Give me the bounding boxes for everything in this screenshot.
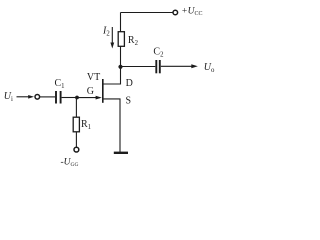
- svg-text:VT: VT: [87, 72, 100, 83]
- label -UGG: [61, 157, 79, 168]
- capacitor C2: [155, 60, 157, 73]
- label G: [87, 86, 94, 97]
- label C2: [153, 47, 164, 59]
- svg-text:S: S: [126, 96, 132, 107]
- label S: [126, 96, 132, 107]
- svg-text:C1: C1: [55, 78, 65, 90]
- wire input to C1: [40, 96, 55, 98]
- svg-text:-UGG: -UGG: [61, 157, 79, 168]
- wire node to C2: [121, 66, 156, 68]
- label +UCC: [181, 6, 202, 17]
- current arrow I2: [111, 27, 113, 44]
- label Ui: [4, 91, 13, 103]
- wire top supply: [121, 12, 173, 14]
- transistor VT drain lead: [103, 83, 121, 85]
- wire C2 to output: [161, 65, 192, 67]
- node G junction: [75, 96, 79, 100]
- terminal +UCC: [173, 10, 178, 15]
- label VT: [87, 72, 100, 83]
- svg-text:+UCC: +UCC: [181, 6, 202, 17]
- input arrow: [17, 96, 31, 98]
- label I2: [102, 26, 110, 38]
- svg-text:R1: R1: [81, 119, 91, 131]
- terminal -UGG: [74, 147, 79, 152]
- ground: [114, 152, 128, 154]
- resistor R1: [73, 117, 79, 132]
- wire R2 to node: [120, 46, 122, 84]
- label D: [126, 78, 133, 89]
- label R2: [128, 35, 139, 47]
- label R1: [81, 119, 91, 131]
- terminal input: [35, 95, 40, 100]
- label C1: [55, 78, 65, 90]
- svg-text:G: G: [87, 86, 94, 97]
- wire R1 to terminal: [75, 132, 77, 147]
- svg-text:R2: R2: [128, 35, 139, 47]
- capacitor C1: [55, 91, 57, 104]
- transistor VT source lead: [103, 99, 120, 152]
- svg-text:C2: C2: [153, 47, 164, 59]
- wire node to R1: [75, 98, 77, 118]
- resistor R2: [118, 32, 124, 47]
- svg-text:I2: I2: [102, 26, 110, 38]
- wire C1 to gate node: [62, 97, 77, 99]
- transistor VT channel: [102, 79, 104, 103]
- svg-text:D: D: [126, 78, 133, 89]
- transistor VT gate lead: [77, 97, 100, 99]
- label Uo: [204, 62, 215, 74]
- svg-text:Uo: Uo: [204, 62, 215, 74]
- wire main vertical upper: [120, 13, 122, 33]
- node D junction: [118, 65, 122, 69]
- svg-text:Ui: Ui: [4, 91, 13, 103]
